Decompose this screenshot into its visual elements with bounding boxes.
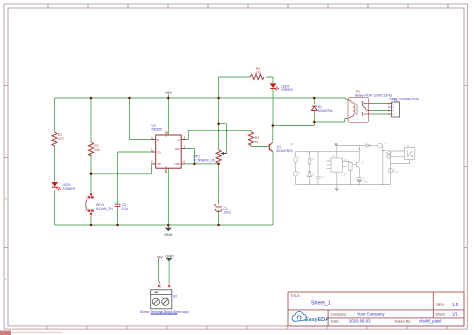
svg-text:7: 7 bbox=[183, 145, 185, 149]
wire LED2 cathode down bbox=[272, 89, 274, 126]
wire D1 to relay bbox=[314, 118, 348, 122]
svg-text:1: 1 bbox=[165, 170, 167, 174]
LED2 GREEN bbox=[270, 83, 279, 90]
ghost capacitor C5 bbox=[356, 178, 362, 180]
svg-text:Relay-HT3F-12VDC1ZHG: Relay-HT3F-12VDC1ZHG bbox=[355, 93, 393, 97]
ghost top rail bbox=[296, 151, 359, 153]
ghost resistor R8 bbox=[349, 163, 352, 171]
ghost wire bbox=[309, 152, 311, 185]
wire terminal GND bbox=[168, 261, 170, 284]
wire D1 top bbox=[313, 98, 315, 104]
svg-text:100u: 100u bbox=[363, 181, 369, 183]
red corner mark bbox=[0, 331, 11, 335]
resistor R3 bbox=[248, 132, 253, 146]
svg-text:Sheet_1: Sheet_1 bbox=[311, 301, 331, 307]
svg-text:1/1: 1/1 bbox=[452, 312, 458, 317]
svg-text:U2: U2 bbox=[173, 294, 177, 298]
+5V power flag bbox=[165, 90, 172, 98]
ghost left vertical wire bbox=[295, 152, 297, 185]
ghost wires to switch bbox=[391, 151, 404, 157]
svg-text:Company:: Company: bbox=[331, 312, 347, 316]
svg-text:+5V: +5V bbox=[165, 90, 172, 95]
svg-text:1N4007W: 1N4007W bbox=[318, 109, 334, 113]
wire Q1 collector bbox=[272, 126, 274, 142]
wire THR bbox=[181, 163, 218, 165]
left ticks bbox=[4, 86, 8, 248]
bottom ticks bbox=[47, 326, 447, 329]
svg-text:8: 8 bbox=[166, 131, 168, 135]
capacitor C3 bbox=[115, 204, 121, 206]
svg-text:TITLE:: TITLE: bbox=[290, 294, 301, 298]
wire RP1 branch bbox=[218, 77, 220, 225]
svg-text:B: B bbox=[5, 197, 7, 201]
pushbutton KEY1 bbox=[86, 194, 94, 215]
svg-text:R: R bbox=[157, 138, 159, 142]
op-amp/timer U1 NE555 bbox=[156, 135, 182, 168]
right ticks bbox=[464, 86, 467, 248]
svg-text:2: 2 bbox=[151, 160, 153, 164]
svg-text:5: 5 bbox=[151, 148, 153, 152]
ghost IC U4 bbox=[331, 158, 342, 172]
node gnd 555 bbox=[167, 224, 170, 227]
diode D1 bbox=[311, 106, 317, 111]
wire 555 VCC bbox=[167, 98, 169, 135]
ghost capacitor C4 bbox=[316, 176, 321, 178]
+5V flag at terminal bbox=[156, 256, 163, 262]
svg-text:+5V: +5V bbox=[156, 256, 163, 260]
svg-text:Drawn By:: Drawn By: bbox=[395, 319, 412, 323]
svg-text:A: A bbox=[5, 277, 7, 281]
svg-text:1.0: 1.0 bbox=[452, 302, 459, 307]
svg-text:NE555: NE555 bbox=[152, 127, 162, 131]
wire terminal +5V bbox=[159, 262, 160, 284]
node rail R2 bbox=[90, 97, 93, 100]
node gnd KEY1 bbox=[90, 224, 93, 227]
ghost ground bbox=[336, 172, 338, 188]
svg-text:Q: Q bbox=[178, 138, 180, 142]
resistor R1 bbox=[52, 132, 57, 146]
ghost top rail B bbox=[337, 145, 366, 147]
node DIS-THR bbox=[193, 163, 196, 166]
resistor R4 bbox=[250, 74, 264, 79]
ground flag at terminal bbox=[165, 254, 174, 261]
wire R2/KEY1 branch bbox=[90, 98, 92, 225]
capacitor C1 bbox=[214, 204, 222, 212]
svg-text:R_50WR#_U5: R_50WR#_U5 bbox=[194, 158, 215, 162]
svg-text:K4-6x6_TH: K4-6x6_TH bbox=[96, 207, 113, 211]
ghost LED circle bbox=[378, 143, 383, 148]
svg-text:5mm: 5mm bbox=[393, 172, 398, 174]
svg-text:BC547BTA: BC547BTA bbox=[277, 149, 294, 153]
ghost motor M1 bbox=[293, 172, 298, 177]
ghost wire bbox=[317, 152, 319, 185]
wire RP1 wiper bbox=[219, 124, 227, 154]
node rail R pin bbox=[128, 97, 131, 100]
potentiometer RP1 bbox=[216, 150, 226, 164]
wire node collector bbox=[273, 122, 315, 126]
wire D1 bottom bbox=[313, 111, 315, 123]
wire bottom GND rail bbox=[55, 224, 274, 226]
ghost diode D3 bbox=[307, 172, 311, 177]
resistor R2 bbox=[88, 142, 93, 156]
wire node TR to R2 bbox=[91, 164, 156, 174]
svg-text:GREEN: GREEN bbox=[281, 88, 293, 92]
node rail VCC bbox=[167, 97, 170, 100]
svg-text:100u: 100u bbox=[224, 211, 232, 215]
node collector-LED bbox=[272, 124, 275, 127]
frame zone numbers bbox=[5, 4, 449, 281]
ghost fuse F1 bbox=[294, 157, 298, 163]
ghost resistor R9 bbox=[308, 159, 311, 165]
svg-text:GND: GND bbox=[164, 233, 173, 237]
node gnd C1 bbox=[217, 224, 220, 227]
title block bbox=[288, 292, 464, 326]
screw terminal U2 bbox=[151, 290, 172, 309]
svg-text:Date:: Date: bbox=[331, 319, 340, 323]
svg-text:Sheet:: Sheet: bbox=[435, 312, 445, 316]
wire Q1 emitter to GND bbox=[272, 152, 274, 225]
node THR-RP1 bbox=[217, 163, 220, 166]
svg-text:4: 4 bbox=[151, 136, 153, 140]
svg-text:1k: 1k bbox=[255, 140, 259, 144]
wire reset pin to +5V bbox=[130, 98, 156, 140]
svg-text:DIMM_CONNECTOR: DIMM_CONNECTOR bbox=[390, 97, 420, 101]
svg-text:POWER: POWER bbox=[63, 187, 76, 191]
LED1 POWER bbox=[51, 182, 61, 190]
wire left vertical bbox=[54, 98, 56, 225]
junction dots bbox=[90, 97, 316, 227]
ground flag main bbox=[164, 225, 173, 237]
svg-text:10k: 10k bbox=[94, 148, 100, 152]
node rail D1 bbox=[313, 97, 316, 100]
node D1 bottom bbox=[313, 121, 316, 124]
svg-text:Your Company: Your Company bbox=[357, 312, 385, 317]
svg-text:470: 470 bbox=[58, 137, 64, 141]
svg-text:DIS: DIS bbox=[175, 147, 180, 151]
svg-text:470: 470 bbox=[255, 71, 261, 75]
svg-text:THR: THR bbox=[174, 162, 180, 166]
ghost wire IC top bbox=[336, 146, 338, 158]
svg-text:chahil_patel: chahil_patel bbox=[419, 319, 441, 324]
ghost diode D6 bbox=[366, 144, 370, 148]
ghost net flag bbox=[335, 143, 338, 146]
relay K1 bbox=[348, 98, 369, 123]
svg-text:2020-06-03: 2020-06-03 bbox=[349, 319, 371, 324]
wire +5V rail bbox=[55, 98, 349, 99]
wire R4 branch bbox=[219, 77, 273, 83]
ghost labels bbox=[290, 143, 410, 184]
terminal pin marks bbox=[158, 285, 170, 287]
svg-text:GND: GND bbox=[165, 254, 174, 258]
node wiper tap bbox=[217, 122, 220, 125]
svg-text:EasyEDA: EasyEDA bbox=[305, 317, 329, 323]
ghost switch S2 bbox=[405, 148, 415, 160]
svg-text:6: 6 bbox=[183, 160, 185, 164]
wire relay to connector bbox=[372, 104, 392, 115]
wire 555 GND bbox=[167, 168, 169, 225]
ghost wire right bbox=[382, 146, 384, 185]
top ticks bbox=[48, 4, 448, 8]
wire DIS bbox=[181, 149, 194, 164]
connector P1 DIMM bbox=[390, 102, 400, 117]
node rail RP1 bbox=[217, 97, 220, 100]
ghost bridge B1 bbox=[387, 150, 392, 158]
svg-text:CV: CV bbox=[157, 150, 161, 154]
ghost transistor Q3 bbox=[352, 161, 359, 168]
svg-text:3: 3 bbox=[183, 136, 185, 140]
transistor Q1 bbox=[269, 142, 273, 151]
node TR junction bbox=[90, 173, 93, 176]
ghost bottom rail bbox=[296, 184, 391, 186]
wire CV to C3 bbox=[118, 152, 156, 225]
node gnd C3 bbox=[116, 224, 119, 227]
svg-text:TR: TR bbox=[157, 162, 161, 166]
ghost circle D2 bbox=[388, 169, 393, 174]
EasyEDA logo bbox=[292, 311, 329, 322]
svg-text:REV:: REV: bbox=[437, 303, 445, 307]
svg-text:0.1u: 0.1u bbox=[122, 207, 129, 211]
wire 555 output to R3 bbox=[181, 130, 269, 146]
